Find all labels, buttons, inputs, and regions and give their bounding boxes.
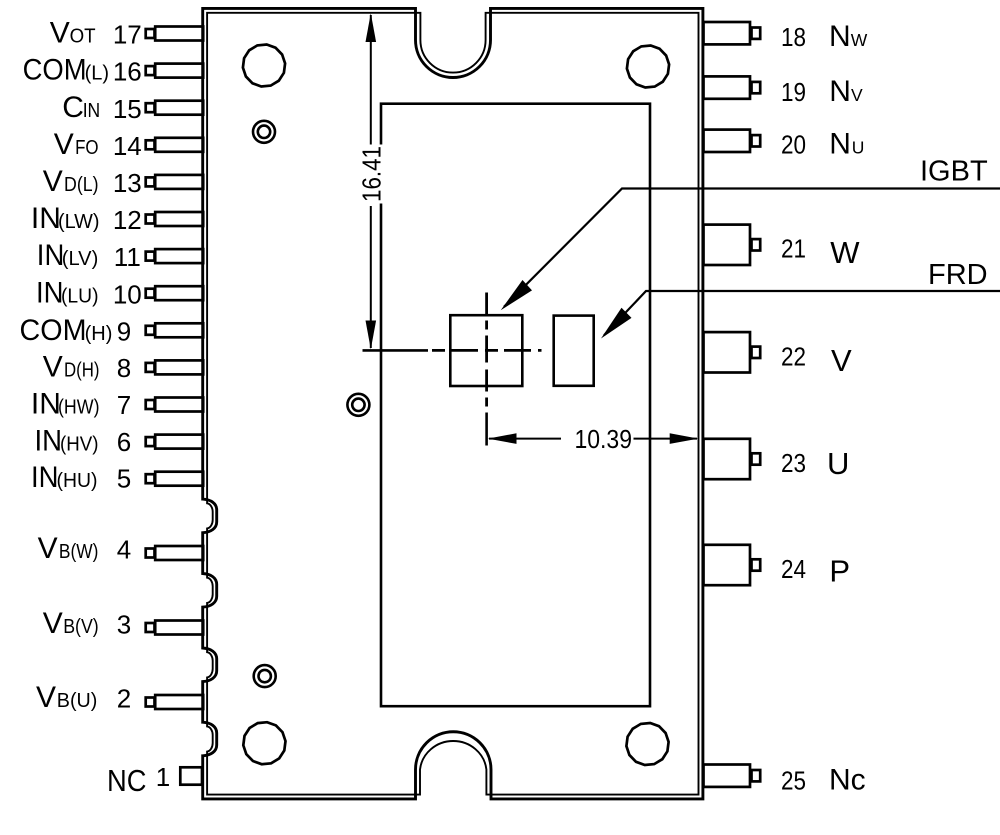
svg-text:22: 22 [781,341,806,371]
pin 14 tip [146,140,155,149]
alignment target upper (outer ring) [253,121,275,143]
mounting hole top-right [627,46,669,88]
svg-text:U: U [827,446,849,481]
pin 8 lead [155,360,203,374]
pin 18 lead [704,22,751,44]
svg-text:2: 2 [117,684,131,714]
pin 5 tip [146,474,155,483]
dimension 10.39 line (right segment) [634,438,698,440]
pin 12 tip [146,215,155,224]
svg-text:W: W [830,235,860,270]
alignment target middle (inner ring) [352,399,364,411]
FRD leader line [604,291,1000,335]
FRD leader arrowhead [601,308,632,339]
pin 2 tip [146,698,155,707]
svg-text:25: 25 [781,766,806,796]
pin 3 tip [146,623,155,632]
svg-text:12: 12 [113,205,142,235]
pin 10 lead [155,286,203,300]
svg-text:Nc: Nc [829,764,866,797]
pin 22 tip [752,347,761,358]
svg-text:1: 1 [156,762,170,792]
alignment target middle (outer ring) [347,394,369,416]
svg-text:16.41: 16.41 [357,146,387,202]
svg-text:11: 11 [114,242,141,272]
pin 14 lead [155,138,203,152]
pin 2 lead [155,695,203,709]
pin 21 tip [752,239,761,250]
svg-text:IGBT: IGBT [920,156,988,188]
pin 13 lead [155,175,203,189]
svg-text:6: 6 [117,427,131,457]
pin 6 lead [155,435,203,449]
alignment target lower (outer ring) [254,665,276,687]
pin 20 lead [704,130,751,152]
svg-text:16: 16 [113,57,142,87]
svg-text:10: 10 [113,279,142,309]
pin 8 tip [146,363,155,372]
IGBT leader line [504,189,1000,307]
pin 7 tip [146,400,155,409]
svg-text:FRD: FRD [928,259,988,291]
vertical centerline through IGBT [485,293,488,409]
svg-text:15: 15 [113,94,142,124]
pin 4 tip [146,549,155,558]
pin 19 tip [752,82,761,93]
svg-text:18: 18 [781,22,806,52]
svg-text:9: 9 [117,316,131,346]
pin 6 tip [146,437,155,446]
alignment target upper (inner ring) [258,126,270,138]
pin 5 lead [155,472,203,486]
pin 1 (NC) lead [180,767,202,784]
dimension 16.41 line (upper segment) [370,15,372,147]
pin 3 lead [155,621,203,635]
dimension 10.39 arrowhead left [488,433,517,444]
pin 7 lead [155,398,203,412]
pin 20 tip [752,135,761,146]
pin 25 lead [704,765,751,787]
pin 9 tip [146,326,155,335]
pin 23 tip [752,453,761,464]
mounting hole top-left [243,45,285,87]
svg-text:V: V [831,343,852,378]
pin 9 lead [155,323,203,337]
pin 18 tip [752,28,761,39]
pin 24 tip [752,559,761,570]
FRD chip rectangle [554,316,594,386]
pin 11 tip [146,252,155,261]
pin 17 tip [146,29,155,38]
mounting hole bottom-left [243,722,285,764]
pin 25 tip [752,770,761,781]
pin 16 lead [155,64,203,78]
pin 12 lead [155,212,203,226]
alignment target lower (inner ring) [259,670,271,682]
svg-text:19: 19 [781,77,806,107]
svg-text:17: 17 [113,20,142,50]
svg-text:7: 7 [117,390,131,420]
dimension 16.41 arrowhead down [366,321,377,350]
pin 19 lead [704,76,751,98]
package body outline (outer) [203,8,703,799]
pin 13 tip [146,177,155,186]
svg-text:23: 23 [781,448,806,478]
mounting hole bottom-right [626,723,668,765]
dimension 10.39 line (left segment) [489,438,561,440]
svg-text:5: 5 [117,463,131,493]
svg-text:8: 8 [117,353,131,383]
package body outline (inner offset line) [207,13,698,795]
svg-text:14: 14 [113,131,142,161]
dimension 10.39 arrowhead right [670,433,699,444]
svg-text:24: 24 [781,554,806,584]
pin 16 tip [146,66,155,75]
IGBT leader arrowhead [501,280,532,310]
svg-text:20: 20 [781,130,806,160]
inner die-area rectangle [381,104,650,707]
svg-text:P: P [829,554,850,589]
pin 21 lead [704,225,751,265]
pin 17 lead [155,27,203,41]
pin 22 lead [704,332,751,372]
pin 23 lead [704,439,751,479]
pin 15 lead [155,101,203,115]
svg-text:10.39: 10.39 [575,424,633,454]
pin 10 tip [146,289,155,298]
svg-text:21: 21 [781,234,806,264]
svg-text:13: 13 [113,168,142,198]
horizontal centerline through IGBT [363,349,429,352]
white mask behind 16.41 text [358,145,384,204]
svg-text:NC: NC [107,763,147,798]
svg-text:4: 4 [117,535,131,565]
dimension 16.41 line (lower segment) [370,206,372,348]
pin 15 tip [146,103,155,112]
centerline extension tick at dimension 10.39 [485,413,488,446]
dimension 16.41 arrowhead up [366,13,377,42]
pin 4 lead [155,546,203,560]
pin 11 lead [155,249,203,263]
svg-text:3: 3 [117,610,131,640]
pin 24 lead [704,545,751,585]
IGBT chip square [450,315,522,386]
